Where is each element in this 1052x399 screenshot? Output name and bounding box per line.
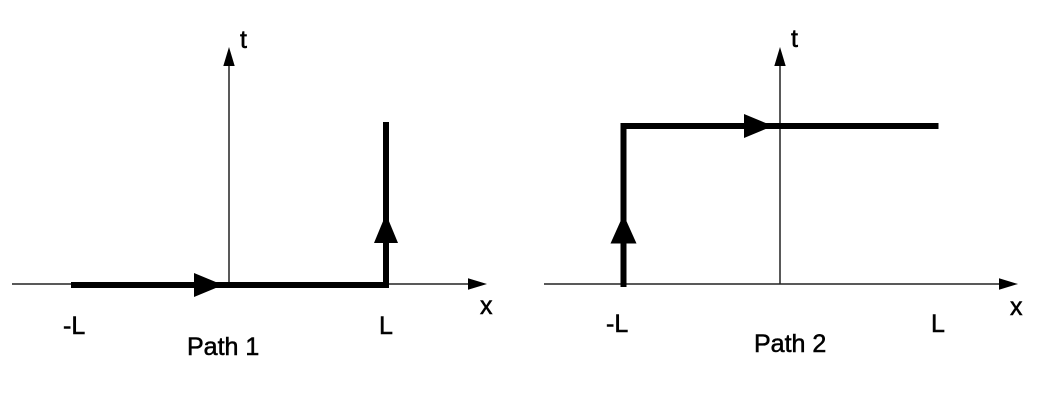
right diagram t-axis arrowhead bbox=[774, 47, 785, 66]
right diagram upward arrowhead on vertical segment bbox=[611, 215, 637, 244]
left diagram x-axis arrowhead bbox=[468, 278, 487, 289]
left diagram x-axis bbox=[12, 283, 470, 285]
right diagram t-axis bbox=[779, 62, 781, 284]
left diagram t-axis bbox=[228, 62, 230, 284]
svg-text:Path 2: Path 2 bbox=[754, 330, 826, 358]
svg-text:L: L bbox=[379, 312, 393, 340]
left diagram rightward arrowhead on horizontal segment bbox=[194, 273, 223, 297]
left diagram thick path 1 polyline (horizontal then up at x=L) bbox=[71, 122, 386, 285]
svg-text:L: L bbox=[931, 310, 945, 338]
svg-text:t: t bbox=[791, 25, 798, 53]
svg-text:-L: -L bbox=[63, 312, 85, 340]
svg-text:t: t bbox=[240, 26, 247, 54]
svg-text:-L: -L bbox=[606, 310, 628, 338]
right diagram rightward arrowhead on horizontal segment bbox=[744, 114, 773, 138]
right diagram x-axis bbox=[544, 283, 1001, 285]
left diagram t-axis arrowhead bbox=[223, 47, 234, 66]
svg-text:x: x bbox=[1010, 293, 1023, 321]
left diagram upward arrowhead on vertical segment bbox=[374, 214, 398, 243]
right diagram x-axis arrowhead bbox=[999, 278, 1018, 289]
svg-text:x: x bbox=[480, 292, 493, 320]
right diagram thick path 2 polyline (up at x=-L then horizontal) bbox=[624, 126, 939, 287]
svg-text:Path 1: Path 1 bbox=[187, 333, 259, 361]
